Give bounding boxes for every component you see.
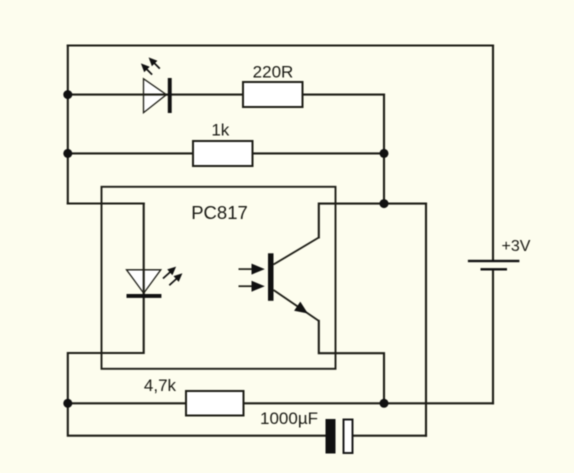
resistor R1 220R: [243, 82, 303, 107]
resistor R2 1k: [193, 141, 253, 166]
battery BT1 short plate: [481, 268, 508, 270]
wire capacitor to right drop: [353, 435, 426, 437]
op-to-coupler U1 PC817 body box: [102, 187, 336, 369]
battery BT1 long plate: [468, 260, 520, 262]
LED D1 triangle: [144, 79, 167, 113]
wire bottom row right: [244, 402, 494, 404]
transistor Q1 emitter diagonal: [274, 290, 319, 321]
node B left 1k row: [63, 149, 72, 158]
wire capacitor row left: [68, 403, 326, 435]
wire LED cathode to R1: [172, 94, 243, 96]
U1 internal LED emission arrow 1: [163, 267, 176, 279]
wire LED row left lead: [68, 94, 168, 96]
LED D1 emission arrow 1: [149, 57, 160, 68]
capacitor C1 positive plate (outline): [344, 420, 353, 454]
wire opto LED cathode drop: [68, 298, 144, 404]
wire bottom row left lead: [68, 402, 186, 404]
svg-text:1k: 1k: [211, 121, 229, 140]
svg-text:PC817: PC817: [191, 202, 248, 223]
wire battery top lead: [492, 46, 494, 260]
transistor Q1 base bar: [268, 253, 274, 300]
svg-text:+3V: +3V: [502, 238, 531, 255]
U1 internal LED wire through triangle: [143, 270, 145, 294]
wire right drop 220R net: [383, 95, 385, 204]
svg-text:4,7k: 4,7k: [144, 376, 177, 395]
wire feed to opto LED anode: [68, 202, 144, 204]
node A left LED row: [63, 90, 72, 99]
node E left bottom row: [63, 399, 72, 408]
LED D1 cathode bar: [168, 78, 172, 113]
Q1 light arrow 1: [239, 264, 265, 275]
wire top rail: [68, 44, 493, 46]
svg-text:1000µF: 1000µF: [260, 409, 318, 428]
LED D1 wire through triangle: [144, 94, 169, 96]
wire 1k row left lead: [68, 152, 193, 154]
wire emitter exit: [319, 321, 384, 403]
wire left rail: [67, 46, 69, 204]
capacitor C1 negative plate (filled): [326, 419, 336, 454]
LED D1 emission arrow 2: [141, 63, 152, 74]
svg-text:220R: 220R: [253, 62, 294, 81]
wire 1k right lead: [253, 152, 385, 154]
resistor R3 4,7k: [186, 391, 244, 416]
wire opto LED anode drop: [143, 204, 145, 295]
U1 internal LED emission arrow 2: [169, 273, 182, 285]
transistor Q1 emitter arrowhead: [294, 302, 308, 314]
U1 internal LED cathode bar: [127, 294, 162, 298]
node F right bottom row: [380, 399, 389, 408]
wire R1 to right corner: [303, 94, 385, 96]
Q1 light arrow 2: [239, 281, 265, 292]
node D collector row: [380, 199, 389, 208]
wire collector to node row: [319, 204, 426, 238]
node C right 1k row: [380, 149, 389, 158]
wire right drop to capacitor: [425, 204, 427, 436]
U1 internal LED triangle: [127, 270, 161, 293]
transistor Q1 collector diagonal: [274, 238, 319, 265]
wire battery bottom lead: [492, 271, 494, 404]
